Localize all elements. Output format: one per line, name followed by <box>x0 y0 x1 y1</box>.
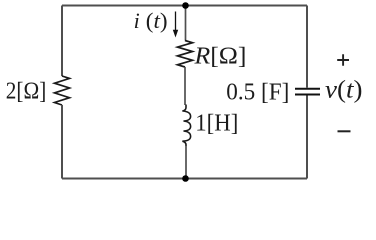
svg-text:1[H]: 1[H] <box>195 111 238 137</box>
wire middle branch upper <box>185 6 187 41</box>
svg-text:R[Ω]: R[Ω] <box>193 44 246 70</box>
minus sign <box>338 130 351 132</box>
resistor 2[Ω] zigzag <box>55 76 70 105</box>
wire right branch lower <box>306 96 308 179</box>
node junction bottom <box>182 175 189 182</box>
wire left branch lower <box>61 105 63 179</box>
wire middle branch mid <box>184 67 186 105</box>
inductor 1[H] coil <box>182 105 190 147</box>
wire left branch upper <box>61 6 63 77</box>
wire top rail <box>62 5 307 7</box>
svg-text:v(t): v(t) <box>325 77 363 104</box>
resistor R zigzag <box>178 41 193 68</box>
wire right branch upper <box>306 6 308 88</box>
plus sign <box>337 54 349 66</box>
svg-text:(t): (t) <box>146 8 168 33</box>
node junction top <box>182 2 189 9</box>
wire middle branch lower <box>185 146 187 179</box>
svg-text:0.5 [F]: 0.5 [F] <box>226 80 289 106</box>
capacitor 0.5[F] plates <box>295 88 320 90</box>
svg-text:2[Ω]: 2[Ω] <box>6 79 47 105</box>
svg-text:i: i <box>134 8 140 33</box>
current arrow i(t) <box>175 12 177 32</box>
wire bottom rail <box>62 178 307 180</box>
